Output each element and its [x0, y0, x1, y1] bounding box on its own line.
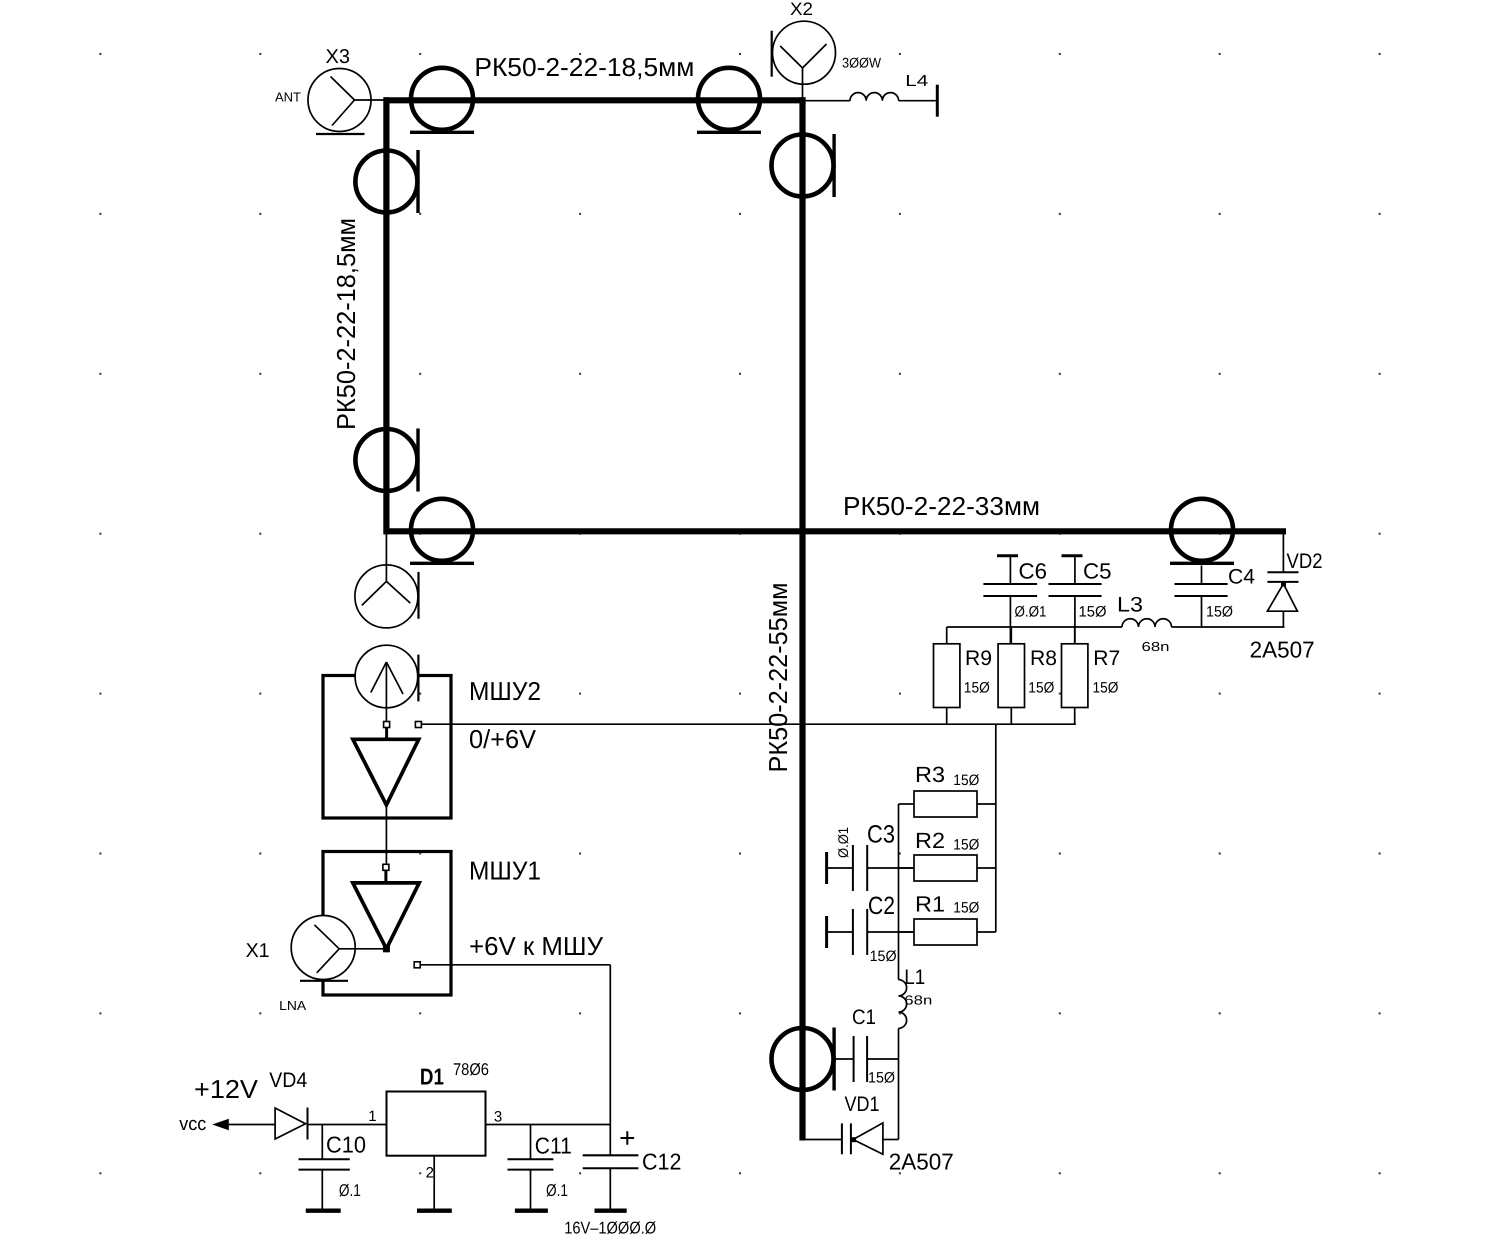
connector X1 (LNA)	[246, 916, 383, 1014]
amplifier module МШУ1	[323, 852, 603, 996]
resistor R2 150	[899, 828, 996, 881]
resistor R9 150	[934, 627, 993, 724]
resistor R1 150	[899, 891, 996, 945]
wire VCC to VD4	[229, 1124, 275, 1126]
svg-text:РК50-2-22-33мм: РК50-2-22-33мм	[843, 491, 1040, 521]
inductor L3	[1117, 594, 1172, 655]
capacitor C2	[827, 892, 914, 965]
svg-text:15Ø: 15Ø	[964, 680, 990, 697]
varicap diode VD2 (2А507)	[1250, 531, 1323, 662]
wire coax РК50-2-22-33мм middle horizontal run	[384, 528, 1286, 534]
svg-text:C5: C5	[1083, 559, 1112, 584]
svg-text:L4: L4	[905, 73, 928, 90]
svg-text:VD2: VD2	[1287, 550, 1323, 573]
inductor L4	[806, 73, 938, 117]
wire L1 to VD1	[898, 1028, 900, 1139]
wire coax РК50-2-22-55мм right run (vertical)	[799, 97, 805, 1140]
capacitor C4	[1175, 566, 1256, 628]
svg-text:C10: C10	[326, 1132, 366, 1158]
wire decoupling rail (R9..C4 row)	[947, 626, 1285, 628]
svg-text:1: 1	[368, 1108, 376, 1125]
capacitor C5	[1049, 556, 1112, 644]
svg-text:R7: R7	[1093, 647, 1120, 670]
svg-text:2А507: 2А507	[889, 1148, 954, 1174]
wire VD4 to D1 input	[308, 1124, 386, 1126]
svg-text:78Ø6: 78Ø6	[453, 1060, 489, 1079]
svg-text:Ø.Ø1: Ø.Ø1	[835, 827, 851, 858]
svg-text:R2: R2	[915, 828, 945, 853]
capacitor C1	[835, 1006, 899, 1087]
wire coax РК50-2-22-18,5мм top run X3→X2	[384, 97, 806, 103]
svg-text:15Ø: 15Ø	[1093, 680, 1119, 697]
ferrite bead on left cable (lower)	[355, 429, 418, 492]
ferrite bead on right cable (lower)	[772, 1028, 835, 1091]
svg-text:+12V: +12V	[194, 1074, 259, 1104]
svg-text:X2: X2	[790, 0, 813, 19]
svg-text:X3: X3	[326, 46, 351, 68]
wire bus down to R3-R1 right side	[995, 724, 997, 932]
wire left bus R3..L1	[898, 804, 900, 980]
wire coax РК50-2-22-18,5мм left run (vertical)	[383, 97, 389, 534]
capacitor C6	[983, 556, 1047, 644]
wire cable corner to connector	[385, 534, 387, 566]
svg-text:68n: 68n	[904, 993, 932, 1008]
svg-text:МШУ2: МШУ2	[469, 676, 541, 706]
connector X3 (ANT)	[275, 46, 384, 134]
ground (C12)	[595, 1208, 627, 1212]
svg-text:R8: R8	[1030, 647, 1057, 670]
svg-text:15Ø: 15Ø	[868, 1070, 895, 1087]
svg-text:15Ø: 15Ø	[953, 900, 979, 917]
svg-text:C3: C3	[867, 821, 895, 849]
svg-text:X1: X1	[246, 940, 270, 962]
svg-text:C6: C6	[1019, 559, 1048, 584]
svg-text:РК50-2-22-55мм: РК50-2-22-55мм	[763, 583, 793, 773]
svg-text:15Ø: 15Ø	[953, 836, 979, 853]
capacitor C10	[299, 1125, 367, 1211]
ferrite bead on top cable (right)	[697, 68, 761, 133]
voltage regulator D1 7806	[387, 1060, 490, 1156]
wire D1 output	[486, 1124, 611, 1126]
ground (C10)	[306, 1208, 341, 1212]
svg-text:ANT: ANT	[275, 90, 301, 105]
svg-text:VD1: VD1	[845, 1093, 880, 1116]
diode VD4	[269, 1069, 307, 1140]
ferrite bead on left cable (upper)	[355, 150, 418, 213]
svg-text:vcc: vcc	[179, 1114, 206, 1135]
svg-text:68n: 68n	[1142, 639, 1170, 654]
resistor R8 150	[998, 627, 1057, 724]
svg-text:РК50-2-22-18,5мм: РК50-2-22-18,5мм	[331, 218, 361, 430]
svg-text:LNA: LNA	[279, 998, 306, 1013]
capacitor C12 (electrolytic 16V-1000.0)	[564, 1125, 681, 1238]
svg-text:Ø.1: Ø.1	[546, 1181, 568, 1200]
ferrite bead on top cable (left)	[410, 68, 474, 133]
svg-text:РК50-2-22-18,5мм: РК50-2-22-18,5мм	[474, 52, 694, 82]
resistor R7 150	[1062, 627, 1121, 724]
svg-text:2А507: 2А507	[1250, 637, 1315, 663]
svg-text:Ø.Ø1: Ø.Ø1	[1015, 604, 1047, 621]
svg-text:R9: R9	[965, 647, 992, 670]
svg-text:C2: C2	[868, 892, 895, 920]
connector (cable side, to МШУ2)	[355, 565, 419, 628]
svg-text:Ø.1: Ø.1	[339, 1181, 361, 1200]
wire +6V к МШУ from D1 output	[420, 965, 610, 1125]
ferrite bead on right cable (upper)	[772, 134, 835, 197]
svg-text:3: 3	[494, 1108, 502, 1125]
varicap diode VD1 (2А507)	[802, 1093, 954, 1174]
svg-text:0/+6V: 0/+6V	[469, 724, 537, 754]
net VCC (+12V input)	[179, 1074, 258, 1135]
svg-text:VD4: VD4	[269, 1069, 307, 1092]
svg-text:+6V к МШУ: +6V к МШУ	[469, 931, 603, 961]
capacitor C3	[827, 821, 914, 892]
svg-text:3ØØW: 3ØØW	[842, 54, 882, 70]
svg-text:C1: C1	[852, 1006, 876, 1029]
ground (D1)	[417, 1208, 452, 1212]
amplifier module МШУ2	[323, 645, 541, 818]
svg-text:L3: L3	[1117, 594, 1143, 617]
connector X2 (300W)	[772, 0, 882, 97]
wire D1 pin2 to ground	[433, 1156, 435, 1211]
svg-text:16V–1ØØØ.Ø: 16V–1ØØØ.Ø	[564, 1219, 656, 1238]
svg-text:15Ø: 15Ø	[1028, 680, 1054, 697]
wire МШУ2 out to МШУ1 in	[385, 805, 387, 864]
inductor L1	[899, 966, 933, 1029]
svg-text:15Ø: 15Ø	[1079, 604, 1107, 621]
svg-text:R1: R1	[915, 891, 945, 916]
ground (C11)	[515, 1208, 548, 1212]
svg-text:C4: C4	[1228, 566, 1255, 589]
capacitor C11	[508, 1125, 572, 1211]
svg-text:C12: C12	[642, 1149, 682, 1175]
svg-text:C11: C11	[535, 1133, 572, 1159]
ferrite bead on middle cable (left)	[410, 499, 474, 564]
svg-text:МШУ1: МШУ1	[469, 856, 541, 886]
svg-text:L1: L1	[904, 966, 925, 989]
svg-text:15Ø: 15Ø	[953, 772, 979, 789]
ferrite bead on middle cable (right)	[1170, 499, 1234, 564]
svg-text:15Ø: 15Ø	[1206, 604, 1233, 621]
svg-text:15Ø: 15Ø	[870, 948, 897, 965]
svg-text:2: 2	[426, 1164, 434, 1181]
svg-text:R3: R3	[915, 762, 945, 787]
wire 0/+6V control rail МШУ2→R9..R7	[421, 723, 1075, 725]
resistor R3 150	[899, 762, 996, 817]
svg-text:D1: D1	[420, 1064, 444, 1090]
